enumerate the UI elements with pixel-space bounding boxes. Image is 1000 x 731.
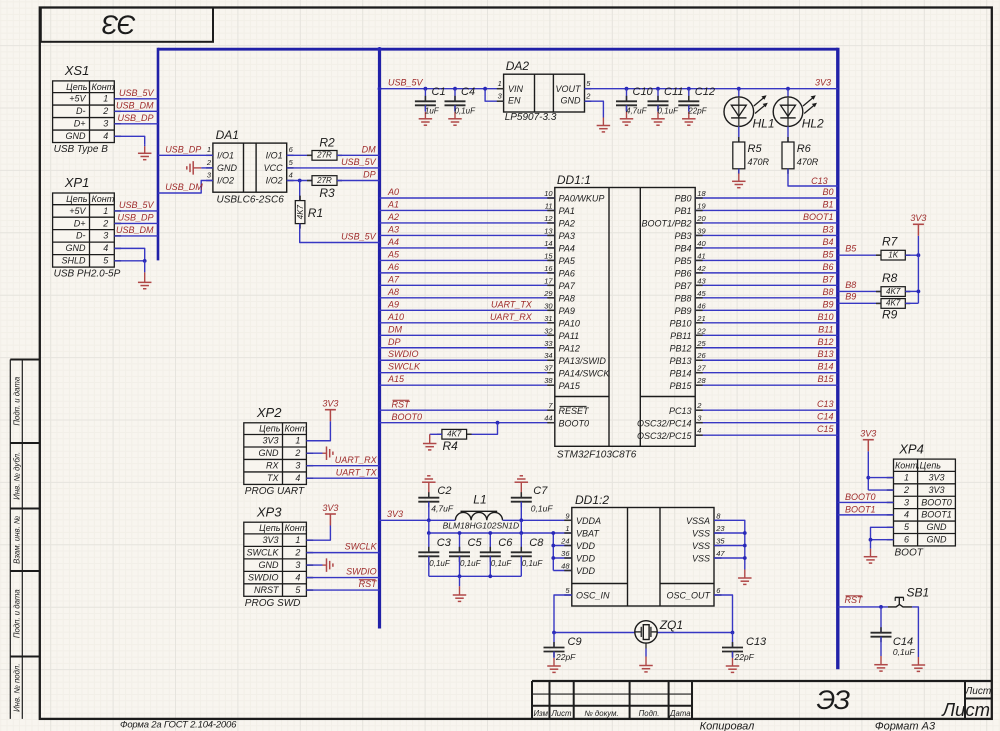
svg-text:C14: C14 xyxy=(817,412,834,422)
svg-text:47: 47 xyxy=(716,549,725,558)
svg-text:USB_5V: USB_5V xyxy=(388,77,424,87)
svg-text:PB15: PB15 xyxy=(669,381,692,391)
svg-text:C14: C14 xyxy=(893,636,913,648)
svg-text:2: 2 xyxy=(585,91,591,100)
svg-text:VIN: VIN xyxy=(508,84,524,94)
svg-text:ЭЗ: ЭЗ xyxy=(816,685,850,715)
svg-text:A3: A3 xyxy=(387,224,399,234)
svg-text:DM: DM xyxy=(362,144,376,154)
svg-text:0,1uF: 0,1uF xyxy=(491,559,513,568)
svg-text:B8: B8 xyxy=(822,287,833,297)
svg-text:VSS: VSS xyxy=(692,541,710,551)
svg-text:XP1: XP1 xyxy=(64,175,90,190)
svg-text:B3: B3 xyxy=(822,224,833,234)
svg-text:PB10: PB10 xyxy=(669,318,691,328)
svg-text:13: 13 xyxy=(544,226,553,235)
svg-text:1: 1 xyxy=(103,206,108,216)
svg-text:ЭЗ: ЭЗ xyxy=(101,10,135,40)
svg-text:GND: GND xyxy=(66,131,87,141)
svg-text:Форма 2а ГОСТ 2.104-2006: Форма 2а ГОСТ 2.104-2006 xyxy=(120,719,237,730)
svg-text:C13: C13 xyxy=(817,399,834,409)
svg-text:R8: R8 xyxy=(882,271,898,285)
svg-text:D-: D- xyxy=(76,106,86,116)
svg-text:C10: C10 xyxy=(633,86,654,98)
svg-text:VDD: VDD xyxy=(576,566,596,576)
svg-text:I/O2: I/O2 xyxy=(266,176,283,186)
svg-text:4K7: 4K7 xyxy=(447,430,462,439)
svg-text:D-: D- xyxy=(76,231,86,241)
svg-text:C11: C11 xyxy=(664,86,683,98)
svg-text:USB_5V: USB_5V xyxy=(119,200,155,210)
svg-text:DD1:2: DD1:2 xyxy=(575,493,609,507)
svg-text:22pF: 22pF xyxy=(734,652,755,662)
svg-text:3V3: 3V3 xyxy=(928,485,944,495)
svg-text:470R: 470R xyxy=(748,157,770,167)
svg-text:DA2: DA2 xyxy=(506,59,530,73)
svg-text:OSC32/PC14: OSC32/PC14 xyxy=(637,418,692,428)
svg-text:GND: GND xyxy=(259,560,280,570)
svg-text:45: 45 xyxy=(697,289,706,298)
svg-text:22: 22 xyxy=(696,326,706,335)
svg-text:A4: A4 xyxy=(387,237,399,247)
svg-text:1: 1 xyxy=(295,535,300,545)
svg-text:EN: EN xyxy=(508,96,521,106)
svg-text:BOOT1/PB2: BOOT1/PB2 xyxy=(641,219,691,229)
svg-text:PA7: PA7 xyxy=(559,281,576,291)
svg-text:Конт.: Конт. xyxy=(895,461,920,471)
svg-text:C13: C13 xyxy=(811,176,828,186)
svg-text:GND: GND xyxy=(217,163,238,173)
svg-text:NRST: NRST xyxy=(254,585,280,595)
svg-text:19: 19 xyxy=(697,201,706,210)
svg-text:A15: A15 xyxy=(387,374,405,384)
svg-text:1uF: 1uF xyxy=(425,106,440,115)
svg-text:Конт: Конт xyxy=(92,194,115,204)
svg-text:BOOT0: BOOT0 xyxy=(921,497,952,507)
svg-text:1K: 1K xyxy=(888,250,898,259)
svg-text:A5: A5 xyxy=(387,249,400,259)
svg-text:C12: C12 xyxy=(695,86,715,98)
svg-text:VBAT: VBAT xyxy=(576,529,600,539)
svg-text:SWCLK: SWCLK xyxy=(246,547,279,557)
svg-text:D+: D+ xyxy=(74,119,86,129)
svg-text:Цепь: Цепь xyxy=(66,82,88,92)
svg-text:Подп. и дата: Подп. и дата xyxy=(13,376,22,425)
svg-text:PB9: PB9 xyxy=(674,306,691,316)
svg-text:PA4: PA4 xyxy=(559,244,575,254)
svg-text:4: 4 xyxy=(289,170,293,179)
svg-text:XP4: XP4 xyxy=(898,441,924,456)
svg-text:Лист: Лист xyxy=(964,686,991,697)
svg-text:B5: B5 xyxy=(822,249,834,259)
svg-text:PROG SWD: PROG SWD xyxy=(245,598,301,609)
svg-text:3: 3 xyxy=(103,231,108,241)
svg-text:3V3: 3V3 xyxy=(860,429,876,439)
svg-text:R5: R5 xyxy=(748,143,763,155)
svg-text:USB PH2.0-5P: USB PH2.0-5P xyxy=(54,269,121,280)
svg-text:0,1uF: 0,1uF xyxy=(531,503,554,513)
svg-text:2: 2 xyxy=(294,547,300,557)
svg-text:22pF: 22pF xyxy=(555,652,576,662)
svg-text:Изм: Изм xyxy=(533,709,548,718)
svg-text:3V3: 3V3 xyxy=(262,535,278,545)
svg-text:PB6: PB6 xyxy=(674,268,691,278)
svg-text:R7: R7 xyxy=(882,235,899,249)
svg-text:B7: B7 xyxy=(822,274,834,284)
svg-text:HL2: HL2 xyxy=(802,117,824,131)
svg-text:3: 3 xyxy=(103,119,108,129)
svg-text:PA13/SWID: PA13/SWID xyxy=(559,356,607,366)
svg-text:STM32F103C8T6: STM32F103C8T6 xyxy=(557,449,637,460)
svg-text:C6: C6 xyxy=(498,537,513,549)
svg-text:27R: 27R xyxy=(316,176,332,185)
svg-text:D+: D+ xyxy=(74,218,86,228)
svg-text:0,1uF: 0,1uF xyxy=(658,106,680,115)
svg-text:PB12: PB12 xyxy=(669,343,691,353)
svg-text:SWDIO: SWDIO xyxy=(346,567,377,577)
svg-text:6: 6 xyxy=(904,535,909,545)
svg-text:PA3: PA3 xyxy=(559,231,575,241)
svg-text:B6: B6 xyxy=(822,262,833,272)
svg-text:SWCLK: SWCLK xyxy=(388,362,421,372)
svg-text:A7: A7 xyxy=(387,274,400,284)
svg-text:1: 1 xyxy=(904,472,909,482)
svg-text:Цепь: Цепь xyxy=(259,424,281,434)
svg-text:B11: B11 xyxy=(818,324,833,334)
svg-text:10: 10 xyxy=(544,189,553,198)
svg-text:TX: TX xyxy=(267,473,279,483)
svg-text:PA1: PA1 xyxy=(559,206,575,216)
svg-text:4: 4 xyxy=(103,131,108,141)
svg-text:27R: 27R xyxy=(316,151,332,160)
svg-text:Цепь: Цепь xyxy=(920,461,942,471)
svg-text:Конт: Конт xyxy=(285,424,308,434)
svg-text:USB_5V: USB_5V xyxy=(341,157,377,167)
svg-text:Инв. № подл.: Инв. № подл. xyxy=(13,664,22,712)
svg-text:UART_TX: UART_TX xyxy=(336,467,378,477)
svg-text:PROG UART: PROG UART xyxy=(245,486,305,497)
svg-text:36: 36 xyxy=(561,549,570,558)
svg-text:4: 4 xyxy=(295,473,300,483)
svg-text:USB_5V: USB_5V xyxy=(119,88,155,98)
svg-text:4: 4 xyxy=(904,510,909,520)
svg-text:BOOT1: BOOT1 xyxy=(921,510,952,520)
svg-text:24: 24 xyxy=(560,537,569,546)
svg-text:SWCLK: SWCLK xyxy=(345,542,378,552)
svg-text:R2: R2 xyxy=(319,135,335,149)
svg-text:22pF: 22pF xyxy=(687,106,707,115)
svg-text:OSC_OUT: OSC_OUT xyxy=(666,591,711,601)
svg-text:B9: B9 xyxy=(845,292,856,302)
svg-text:Конт: Конт xyxy=(92,82,115,92)
svg-text:VSS: VSS xyxy=(692,554,710,564)
svg-text:0,1uF: 0,1uF xyxy=(455,106,477,115)
svg-text:HL1: HL1 xyxy=(753,117,775,131)
svg-text:I/O1: I/O1 xyxy=(266,150,283,160)
svg-text:B0: B0 xyxy=(822,187,833,197)
svg-text:Подп.: Подп. xyxy=(639,709,660,718)
svg-text:2: 2 xyxy=(102,106,108,116)
svg-text:PB13: PB13 xyxy=(669,356,691,366)
svg-text:A10: A10 xyxy=(387,312,404,322)
svg-text:RX: RX xyxy=(266,461,279,471)
svg-text:BOOT: BOOT xyxy=(895,548,924,559)
svg-text:R9: R9 xyxy=(882,307,898,321)
svg-text:PA11: PA11 xyxy=(559,331,580,341)
svg-text:USB_DP: USB_DP xyxy=(117,212,153,222)
svg-text:32: 32 xyxy=(544,326,553,335)
svg-text:VSSA: VSSA xyxy=(686,516,710,526)
svg-text:R1: R1 xyxy=(308,206,323,220)
svg-text:DD1:1: DD1:1 xyxy=(557,173,591,187)
svg-text:Копировал: Копировал xyxy=(700,721,755,731)
svg-text:Лист: Лист xyxy=(550,709,572,718)
svg-text:41: 41 xyxy=(697,251,705,260)
svg-text:A2: A2 xyxy=(387,212,399,222)
svg-text:I/O2: I/O2 xyxy=(217,176,234,186)
svg-text:43: 43 xyxy=(697,276,706,285)
svg-text:2: 2 xyxy=(102,218,108,228)
svg-text:VDD: VDD xyxy=(576,541,596,551)
svg-text:RST: RST xyxy=(392,400,412,410)
svg-text:BOOT1: BOOT1 xyxy=(845,504,876,514)
svg-text:RESET: RESET xyxy=(559,406,591,416)
svg-text:PB8: PB8 xyxy=(674,293,691,303)
svg-text:USB_DM: USB_DM xyxy=(165,182,203,192)
svg-text:USBLC6-2SC6: USBLC6-2SC6 xyxy=(217,195,285,206)
svg-text:Цепь: Цепь xyxy=(66,194,88,204)
svg-text:0,1uF: 0,1uF xyxy=(522,559,544,568)
svg-text:SWDIO: SWDIO xyxy=(248,572,279,582)
svg-text:B15: B15 xyxy=(817,374,834,384)
svg-text:PA15: PA15 xyxy=(559,381,581,391)
svg-text:B1: B1 xyxy=(822,199,833,209)
svg-text:I/O1: I/O1 xyxy=(217,150,234,160)
svg-text:USB_DM: USB_DM xyxy=(116,100,154,110)
svg-text:40: 40 xyxy=(697,239,706,248)
svg-text:C3: C3 xyxy=(437,537,452,549)
svg-text:15: 15 xyxy=(544,251,553,260)
svg-text:Формат А3: Формат А3 xyxy=(875,721,936,731)
svg-text:BLM18HG102SN1D: BLM18HG102SN1D xyxy=(443,521,520,531)
svg-text:PB4: PB4 xyxy=(674,244,691,254)
svg-text:3: 3 xyxy=(295,560,300,570)
svg-text:DP: DP xyxy=(363,169,376,179)
svg-text:1: 1 xyxy=(207,145,211,154)
svg-text:C1: C1 xyxy=(432,86,446,98)
svg-text:C5: C5 xyxy=(468,537,483,549)
svg-text:3V3: 3V3 xyxy=(262,436,278,446)
svg-text:C4: C4 xyxy=(461,86,475,98)
svg-text:28: 28 xyxy=(696,376,706,385)
svg-text:0,1uF: 0,1uF xyxy=(893,647,916,657)
svg-text:B4: B4 xyxy=(822,237,833,247)
svg-text:48: 48 xyxy=(561,562,570,571)
svg-text:SHLD: SHLD xyxy=(61,256,86,266)
svg-text:2: 2 xyxy=(903,485,909,495)
svg-text:BOOT1: BOOT1 xyxy=(803,212,834,222)
svg-text:Подп. и дата: Подп. и дата xyxy=(13,589,22,638)
svg-text:SWDIO: SWDIO xyxy=(388,349,419,359)
svg-text:PB3: PB3 xyxy=(674,231,691,241)
svg-text:18: 18 xyxy=(697,189,706,198)
svg-text:BOOT0: BOOT0 xyxy=(845,492,876,502)
svg-text:USB_DP: USB_DP xyxy=(165,144,201,154)
svg-text:VDD: VDD xyxy=(576,554,596,564)
svg-text:+5V: +5V xyxy=(69,94,86,104)
svg-text:3V3: 3V3 xyxy=(387,509,403,519)
svg-text:38: 38 xyxy=(544,376,553,385)
svg-text:2: 2 xyxy=(294,448,300,458)
svg-text:B9: B9 xyxy=(822,299,833,309)
svg-text:C15: C15 xyxy=(817,424,835,434)
svg-text:27: 27 xyxy=(696,364,706,373)
svg-text:0,1uF: 0,1uF xyxy=(429,559,451,568)
svg-text:39: 39 xyxy=(697,226,706,235)
svg-text:B12: B12 xyxy=(817,337,833,347)
svg-text:33: 33 xyxy=(544,339,553,348)
svg-text:C9: C9 xyxy=(568,636,582,648)
svg-text:4,7uF: 4,7uF xyxy=(626,106,648,115)
svg-text:21: 21 xyxy=(696,314,705,323)
svg-text:B5: B5 xyxy=(845,244,857,254)
svg-text:44: 44 xyxy=(544,414,552,423)
svg-text:2: 2 xyxy=(206,158,212,167)
svg-text:3V3: 3V3 xyxy=(910,213,926,223)
svg-text:3: 3 xyxy=(904,497,909,507)
svg-text:DM: DM xyxy=(388,324,402,334)
svg-text:DP: DP xyxy=(388,337,401,347)
svg-text:GND: GND xyxy=(561,96,582,106)
svg-text:PB5: PB5 xyxy=(674,256,692,266)
svg-text:11: 11 xyxy=(545,201,553,210)
svg-text:20: 20 xyxy=(696,214,706,223)
svg-text:B14: B14 xyxy=(817,362,833,372)
svg-text:ZQ1: ZQ1 xyxy=(659,618,683,632)
svg-text:1: 1 xyxy=(498,79,502,88)
svg-text:C2: C2 xyxy=(437,485,451,497)
svg-text:1: 1 xyxy=(103,94,108,104)
svg-text:USB_DP: USB_DP xyxy=(117,113,153,123)
svg-text:A1: A1 xyxy=(387,199,399,209)
svg-text:LP5907-3.3: LP5907-3.3 xyxy=(505,112,557,123)
svg-text:A9: A9 xyxy=(387,299,399,309)
svg-text:XS1: XS1 xyxy=(64,63,90,78)
svg-text:USB_DM: USB_DM xyxy=(116,225,154,235)
svg-text:Конт: Конт xyxy=(285,523,308,533)
svg-text:UART_TX: UART_TX xyxy=(491,299,533,309)
svg-text:1: 1 xyxy=(565,524,569,533)
svg-text:A6: A6 xyxy=(387,262,399,272)
svg-text:Инв. № дубл.: Инв. № дубл. xyxy=(13,452,22,500)
svg-text:VSS: VSS xyxy=(692,529,710,539)
svg-text:30: 30 xyxy=(544,301,553,310)
svg-text:PA12: PA12 xyxy=(559,343,580,353)
svg-text:VDDA: VDDA xyxy=(576,516,601,526)
svg-text:VCC: VCC xyxy=(264,163,284,173)
svg-text:B8: B8 xyxy=(845,280,856,290)
svg-text:25: 25 xyxy=(696,339,706,348)
svg-text:PC13: PC13 xyxy=(669,406,692,416)
svg-text:PA5: PA5 xyxy=(559,256,576,266)
svg-text:C7: C7 xyxy=(533,485,548,497)
svg-text:XP3: XP3 xyxy=(256,504,282,519)
svg-text:R4: R4 xyxy=(443,439,459,453)
svg-text:PA9: PA9 xyxy=(559,306,575,316)
svg-text:RST: RST xyxy=(845,595,865,605)
svg-text:R6: R6 xyxy=(797,143,812,155)
svg-text:PB11: PB11 xyxy=(670,331,691,341)
svg-text:14: 14 xyxy=(544,239,552,248)
svg-text:UART_RX: UART_RX xyxy=(335,455,378,465)
svg-text:USB Type B: USB Type B xyxy=(54,144,109,155)
svg-text:4: 4 xyxy=(103,243,108,253)
svg-text:GND: GND xyxy=(927,522,948,532)
svg-text:PA8: PA8 xyxy=(559,293,575,303)
svg-text:23: 23 xyxy=(715,524,725,533)
svg-text:PA6: PA6 xyxy=(559,268,575,278)
svg-text:Дата: Дата xyxy=(669,709,691,718)
svg-text:SB1: SB1 xyxy=(907,585,930,599)
svg-text:4K7: 4K7 xyxy=(296,204,305,219)
svg-text:USB_5V: USB_5V xyxy=(341,231,377,241)
svg-text:C8: C8 xyxy=(529,537,544,549)
svg-text:XP2: XP2 xyxy=(256,405,282,420)
svg-text:GND: GND xyxy=(927,535,948,545)
svg-text:VOUT: VOUT xyxy=(555,84,582,94)
svg-text:OSC32/PC15: OSC32/PC15 xyxy=(637,431,693,441)
svg-text:A8: A8 xyxy=(387,287,399,297)
svg-text:A0: A0 xyxy=(387,187,399,197)
svg-text:GND: GND xyxy=(66,243,87,253)
svg-text:PB0: PB0 xyxy=(674,194,691,204)
svg-text:4: 4 xyxy=(697,426,701,435)
svg-text:37: 37 xyxy=(544,364,553,373)
svg-text:PB7: PB7 xyxy=(674,281,692,291)
svg-text:4K7: 4K7 xyxy=(886,287,901,296)
svg-text:UART_RX: UART_RX xyxy=(490,312,533,322)
svg-text:GND: GND xyxy=(259,448,280,458)
svg-text:1: 1 xyxy=(295,436,300,446)
svg-text:OSC_IN: OSC_IN xyxy=(576,591,610,601)
svg-text:3V3: 3V3 xyxy=(322,503,338,513)
svg-text:PA2: PA2 xyxy=(559,219,575,229)
svg-text:3V3: 3V3 xyxy=(815,77,831,87)
svg-text:0,1uF: 0,1uF xyxy=(460,559,482,568)
svg-text:№ докум.: № докум. xyxy=(584,709,618,718)
svg-text:35: 35 xyxy=(716,537,725,546)
svg-text:C13: C13 xyxy=(746,636,767,648)
svg-text:PA0/WKUP: PA0/WKUP xyxy=(559,194,605,204)
svg-text:3V3: 3V3 xyxy=(322,399,338,409)
svg-text:46: 46 xyxy=(697,301,706,310)
svg-text:2: 2 xyxy=(696,401,702,410)
svg-text:Лист: Лист xyxy=(941,699,990,720)
svg-text:16: 16 xyxy=(544,264,553,273)
svg-text:3V3: 3V3 xyxy=(928,472,944,482)
svg-text:RST: RST xyxy=(359,579,379,589)
svg-text:PB1: PB1 xyxy=(674,206,691,216)
svg-text:34: 34 xyxy=(544,351,552,360)
svg-text:DA1: DA1 xyxy=(216,128,239,142)
svg-text:470R: 470R xyxy=(797,157,819,167)
svg-text:31: 31 xyxy=(544,314,552,323)
svg-text:42: 42 xyxy=(697,264,706,273)
svg-text:BOOT0: BOOT0 xyxy=(559,418,590,428)
svg-text:Взам. инв. №: Взам. инв. № xyxy=(13,516,22,564)
svg-text:PA14/SWCK: PA14/SWCK xyxy=(559,368,611,378)
svg-text:29: 29 xyxy=(543,289,553,298)
